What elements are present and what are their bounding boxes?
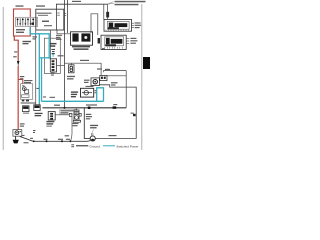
battery box BT1: [13, 130, 25, 137]
starter ground lead: [21, 102, 36, 104]
interlock module (dark box): [34, 105, 40, 111]
legend ground line sample: [76, 145, 88, 147]
bus splice 1: [88, 107, 91, 110]
key switch terminal strip: [16, 17, 38, 26]
ignition module box U1: [36, 9, 64, 30]
page right border: [141, 4, 143, 150]
battery ground lead: [15, 136, 17, 140]
starter solenoid box: [21, 84, 33, 102]
hour meter feed wires: [91, 14, 98, 35]
legend equals mark: [71, 144, 74, 147]
battery to ground bus diagonal: [20, 136, 34, 141]
outer return loop from solenoid: [95, 85, 136, 139]
svg-text:Ground: Ground: [90, 144, 101, 148]
wire drop with crimp: [107, 4, 109, 19]
seat switch label: [46, 121, 54, 127]
red branch to starter solenoid: [18, 80, 23, 84]
starter solenoid label: [24, 80, 33, 83]
pointer lines to note text: [107, 2, 113, 5]
cyan switched power run to PTO: [42, 100, 104, 102]
connector tick on loop: [131, 113, 136, 117]
pump label right: [86, 114, 92, 120]
tiny label near starter: [36, 88, 39, 89]
wire gauge label: [33, 36, 38, 39]
bus label 1: [86, 104, 97, 105]
red wire continuing to battery: [17, 66, 19, 130]
fuel pump P1: [73, 108, 81, 122]
safety interlock connector J1: [50, 55, 64, 75]
neutral start box: [23, 106, 30, 114]
brake interlock switch S3: [90, 133, 95, 141]
loop bottom label: [109, 135, 117, 136]
relay module label: [135, 22, 142, 28]
wire id labels: [43, 96, 46, 97]
sensor box label: [97, 68, 110, 70]
PTO clutch cyan loop: [97, 88, 104, 102]
power port label: [35, 113, 43, 117]
sensor wire across: [65, 63, 102, 75]
brake switch drop wire: [84, 108, 90, 139]
chassis ground symbol: [13, 140, 19, 144]
connector side labels: [59, 109, 76, 114]
module pin marks: [57, 13, 66, 15]
brake switch label: [90, 125, 98, 129]
cyan wire: to safety connector: [39, 57, 50, 59]
fuse connector arrow on red wire: [17, 61, 20, 66]
key switch label text: [16, 29, 25, 33]
safety switch symbols: [51, 49, 55, 54]
power port marks: [33, 130, 36, 131]
top wire run to modules: [56, 4, 107, 9]
module caption: [36, 5, 45, 6]
hour meter module M1: [71, 32, 93, 45]
legend switched power line sample: [103, 145, 115, 147]
wire from module bottom: [57, 30, 70, 34]
small sensor box: [100, 75, 107, 80]
oil switch label: [67, 76, 75, 80]
battery label: [20, 123, 25, 126]
seat switch connector J2: [48, 112, 55, 121]
page edge tab (black index marker): [143, 57, 150, 69]
red battery feed wire from key switch: [14, 36, 18, 61]
hour meter label: [72, 46, 90, 50]
wire down to ground bus: [71, 116, 73, 141]
loop label: [111, 82, 118, 85]
relay module A1: [104, 19, 132, 31]
seat switch wire to connector: [55, 114, 69, 116]
wire drop to relay module: [103, 4, 105, 19]
ground bus lower: [34, 140, 91, 141]
top-right note text: [115, 1, 146, 6]
fuse label text: [23, 41, 32, 45]
main ground bus: [43, 107, 127, 109]
PTO clutch label: [71, 91, 78, 97]
wire id text above top run: [72, 1, 81, 2]
bus labels: [44, 139, 48, 140]
TDC module pins: [127, 38, 130, 43]
second top vertical wire: [67, 0, 69, 33]
long center vertical wire: [64, 0, 66, 108]
TDC module A2: [98, 35, 127, 49]
safety switch label: [44, 38, 60, 73]
pointer to brake switch: [92, 130, 94, 133]
solenoid label: [84, 80, 90, 83]
svg-text:Switched Power: Switched Power: [116, 144, 138, 148]
cyan wire: key switch to harness (upper): [30, 28, 49, 59]
tiny label: [56, 35, 62, 36]
return wire from sensor box: [107, 71, 126, 108]
below module marks: [102, 48, 105, 49]
ignition module internal markings: [37, 13, 53, 27]
inline connector: [69, 113, 72, 116]
TDC module label: [130, 38, 137, 44]
key switch K1 (red outline box): [14, 9, 31, 36]
bus junction dots: [33, 140, 35, 142]
crimp connector: [106, 12, 109, 18]
wire color label: [20, 76, 25, 77]
bus splice 2: [113, 106, 117, 108]
return wire upper right: [103, 71, 126, 73]
oil pressure switch S2: [68, 63, 74, 73]
wire label: [80, 60, 89, 61]
black lead from module corner down to starter/ground: [35, 30, 37, 105]
pump label below: [73, 123, 79, 126]
cyan wire: key switch to harness (lower): [39, 34, 41, 105]
lead from module bottom to interlock connector: [50, 30, 52, 59]
bus label 2: [113, 104, 117, 105]
PTO clutch coil: [81, 88, 97, 97]
relay module pins: [132, 23, 134, 27]
20A label left of wire: [14, 51, 17, 52]
page left border: [2, 7, 4, 150]
fuel shutoff solenoid Y1: [91, 78, 99, 86]
key switch caption: [16, 5, 24, 6]
